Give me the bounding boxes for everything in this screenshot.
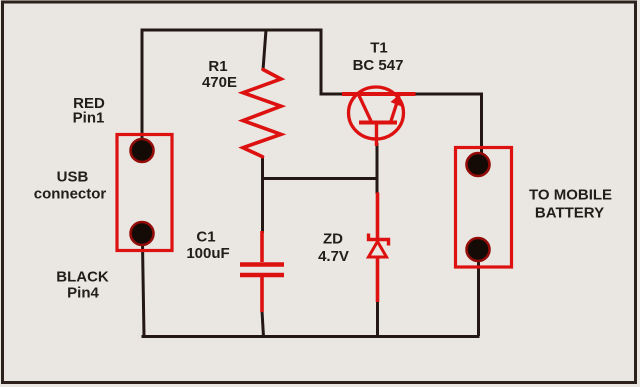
svg-text:Pin1: Pin1 [73,110,105,127]
wire node to C1 [261,179,264,234]
svg-text:ZD: ZD [323,231,343,248]
battery connector body [456,148,512,268]
svg-text:4.7V: 4.7V [318,248,349,265]
USB connector body [117,135,172,251]
transistor T1 [342,87,416,146]
svg-text:USB: USB [57,169,89,186]
battery connector pin top [467,153,490,176]
wire to transistor collector [320,93,345,96]
label R1 470E [202,58,237,91]
wire R1 bottom lead [261,156,264,179]
wire ZD bottom lead [376,301,379,337]
resistor R1 [243,70,281,157]
wire transistor base down [376,143,379,194]
capacitor C1 [240,231,284,312]
svg-text:TO MOBILE: TO MOBILE [529,187,612,204]
wire vertical drop to transistor collector [320,29,323,95]
svg-text:connector: connector [34,186,107,203]
label TO MOBILE BATTERY [529,187,612,222]
svg-text:C1: C1 [196,229,215,246]
battery connector pin bottom [467,238,490,261]
svg-text:100uF: 100uF [186,245,229,262]
wire transistor emitter to corner [414,93,483,96]
label BLACK Pin4 [56,269,109,302]
wire bottom rail [142,335,480,338]
label C1 100uF [186,229,229,263]
svg-text:R1: R1 [208,58,227,75]
svg-text:T1: T1 [370,40,388,57]
wire C1 bottom lead [262,311,264,337]
label RED Pin1 [73,95,105,127]
wire middle node rail [262,177,379,180]
svg-text:Pin4: Pin4 [67,285,99,302]
svg-text:BC 547: BC 547 [353,57,404,74]
wire USB pin4 down [143,244,145,336]
wire R1 top lead [263,30,266,70]
label ZD 4.7V [318,231,349,266]
wire drop to battery connector pin [480,93,483,164]
label T1 BC 547 [353,40,404,75]
zener diode ZD [369,193,389,303]
wire left vertical to USB pin1 [141,29,144,152]
label USB connector [34,169,107,203]
wire battery pin down [477,249,480,336]
USB connector pin 1 [131,139,154,162]
svg-text:BATTERY: BATTERY [535,205,604,222]
svg-text:470E: 470E [202,74,237,91]
USB connector pin 4 [131,222,154,245]
wire top rail [142,29,321,32]
svg-text:BLACK: BLACK [56,269,109,286]
